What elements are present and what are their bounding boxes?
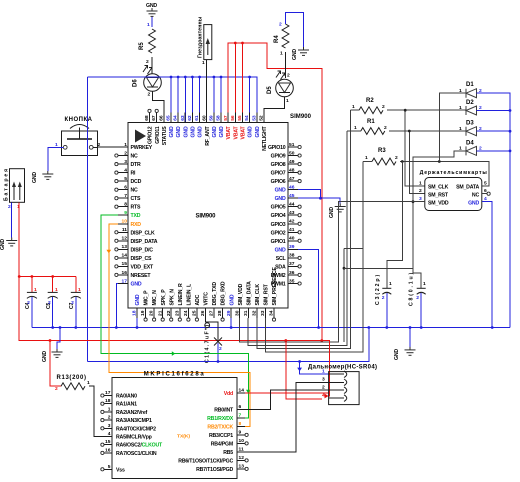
resistor R5 [139, 29, 155, 65]
svg-text:8: 8 [124, 202, 127, 208]
diode D1 [439, 82, 482, 162]
svg-text:RA1/AN1: RA1/AN1 [116, 402, 137, 408]
wire SIM_VDD net pin30 to holder [240, 202, 425, 343]
wire holder GND pin to rail [482, 202, 492, 328]
ground GND right of SIM [329, 204, 346, 219]
svg-text:41: 41 [289, 227, 295, 233]
svg-text:RA5/MCLR/Vpp: RA5/MCLR/Vpp [116, 435, 152, 441]
wire R2 net to D2 and SM_CLK [351, 109, 467, 186]
resistor R1 [354, 119, 387, 134]
svg-text:21: 21 [157, 310, 163, 316]
svg-text:4: 4 [484, 196, 487, 202]
svg-text:1: 1 [286, 98, 289, 104]
svg-text:NRESET: NRESET [131, 273, 152, 279]
svg-text:65: 65 [166, 115, 172, 121]
svg-text:RA0/AN0: RA0/AN0 [116, 394, 137, 400]
svg-text:5: 5 [124, 176, 127, 182]
svg-text:VBAT: VBAT [233, 125, 239, 139]
svg-text:RB2/TX/CK: RB2/TX/CK [207, 424, 233, 430]
svg-text:GND: GND [275, 196, 286, 202]
svg-text:DCD: DCD [131, 179, 142, 185]
diode D2 [459, 100, 482, 115]
svg-text:2: 2 [382, 295, 385, 301]
svg-text:4: 4 [124, 167, 127, 173]
wire D3 cathode blue [477, 130, 512, 133]
svg-text:GND: GND [198, 126, 204, 137]
svg-text:3: 3 [419, 196, 422, 202]
svg-text:GND: GND [292, 49, 298, 60]
svg-text:57: 57 [223, 115, 229, 121]
svg-text:10: 10 [239, 438, 245, 444]
svg-text:1: 1 [365, 155, 368, 161]
svg-text:Vss: Vss [116, 467, 125, 473]
wire R5 to D6 [151, 57, 153, 74]
svg-text:SIM900: SIM900 [290, 114, 312, 120]
button КНОПКА S1 [55, 117, 101, 156]
svg-text:SIM_CLK: SIM_CLK [255, 284, 261, 306]
svg-text:6: 6 [484, 188, 487, 194]
wire SIM pin39 GND down to rail [298, 249, 319, 327]
svg-text:2: 2 [148, 92, 151, 98]
svg-text:TX(K): TX(K) [177, 434, 190, 440]
svg-text:GPIO6: GPIO6 [271, 179, 286, 185]
svg-text:1: 1 [459, 88, 462, 94]
svg-text:GND: GND [212, 126, 218, 137]
svg-text:16: 16 [122, 270, 128, 276]
svg-text:SIM_PRESENCE: SIM_PRESENCE [272, 267, 278, 306]
wire SIM_CLK net pin32 to R2 [257, 110, 351, 348]
svg-text:STATUS: STATUS [162, 126, 168, 146]
svg-text:SM_RST: SM_RST [428, 193, 449, 199]
svg-text:D6: D6 [133, 79, 139, 87]
svg-text:14: 14 [122, 253, 128, 259]
wire R1 net to D3 and SM_RST [347, 130, 466, 194]
svg-text:RB1/RX/DX: RB1/RX/DX [207, 416, 234, 422]
svg-text:DBG_RXD: DBG_RXD [221, 281, 227, 305]
svg-text:DISP_CS: DISP_CS [131, 256, 153, 262]
svg-text:NC: NC [131, 188, 139, 194]
svg-text:1: 1 [280, 51, 283, 57]
svg-text:3: 3 [108, 423, 111, 429]
svg-text:SPK_N: SPK_N [169, 289, 175, 306]
svg-text:12: 12 [122, 236, 128, 242]
wire long GND vertical from top bus down left side [86, 77, 88, 362]
resistor R2 [352, 98, 385, 114]
svg-text:9: 9 [124, 210, 127, 216]
svg-text:2: 2 [322, 385, 325, 391]
capacitor C7 [69, 277, 81, 328]
svg-text:GPIO3: GPIO3 [271, 222, 286, 228]
svg-text:GND: GND [468, 201, 479, 207]
svg-text:44: 44 [289, 202, 295, 208]
diode D4 [459, 141, 482, 156]
svg-text:50: 50 [289, 150, 295, 156]
svg-text:2: 2 [382, 104, 385, 110]
svg-text:DTR: DTR [131, 162, 142, 168]
svg-text:NC: NC [131, 154, 139, 160]
svg-text:32: 32 [251, 310, 257, 316]
svg-text:39: 39 [289, 244, 295, 250]
wire SIM_RST net pin33 to R3 [265, 162, 363, 353]
svg-text:55: 55 [237, 115, 243, 121]
wire SIM_DATA net pin31 to R1 [248, 131, 347, 345]
svg-text:1: 1 [459, 105, 462, 111]
ultrasonic module Дальномер HC-SR04 [308, 364, 377, 404]
diode D3 [459, 121, 482, 136]
svg-text:7: 7 [124, 193, 127, 199]
svg-text:1: 1 [419, 181, 422, 187]
svg-text:26: 26 [200, 310, 206, 316]
svg-text:1: 1 [108, 406, 111, 412]
svg-text:2: 2 [48, 300, 51, 306]
svg-text:GND: GND [329, 207, 335, 218]
svg-text:R13(200): R13(200) [57, 375, 87, 381]
svg-text:C8(0.1u): C8(0.1u) [409, 273, 415, 306]
svg-text:63: 63 [180, 115, 186, 121]
holder NC pin circle [482, 192, 490, 195]
svg-text:58: 58 [216, 115, 222, 121]
svg-text:PWRKEY: PWRKEY [131, 145, 153, 151]
wire D2 cathode blue [477, 109, 512, 112]
svg-text:GPIO7: GPIO7 [271, 171, 286, 177]
svg-text:Гнездоантенны: Гнездоантенны [198, 16, 204, 58]
wire VBAT pins 57 56 55 [228, 42, 322, 341]
svg-text:2: 2 [395, 155, 398, 161]
wire C3 feed net [343, 162, 413, 343]
SIM900 right pins 51-35 [268, 142, 301, 288]
svg-text:Батарея: Батарея [4, 169, 10, 201]
svg-text:15: 15 [105, 439, 111, 445]
svg-text:2: 2 [416, 295, 419, 301]
svg-text:GND: GND [42, 351, 48, 362]
svg-text:GND: GND [248, 126, 254, 137]
svg-text:SCL: SCL [276, 256, 287, 262]
svg-text:RXD: RXD [131, 222, 142, 228]
svg-text:6: 6 [239, 404, 242, 410]
svg-text:GPIO1: GPIO1 [271, 239, 286, 245]
svg-text:D4: D4 [466, 141, 474, 147]
svg-text:27: 27 [209, 310, 215, 316]
wire battery minus to GND [11, 202, 13, 237]
svg-text:GND: GND [275, 188, 286, 194]
svg-text:8: 8 [239, 421, 242, 427]
svg-text:2: 2 [146, 59, 149, 65]
ground GND below caps rail [42, 326, 63, 362]
svg-text:C3(22p): C3(22p) [375, 275, 381, 305]
svg-text:RA4/T0CKI/CMP2: RA4/T0CKI/CMP2 [116, 426, 156, 432]
svg-text:RB7/T1OSI/PGD: RB7/T1OSI/PGD [196, 467, 233, 473]
svg-text:VBAT: VBAT [241, 125, 247, 139]
battery Батарея [4, 169, 25, 210]
MCU right pins [237, 387, 248, 470]
wire SIM900 pin29 GND to rail [230, 318, 232, 328]
wire battery plus red rail down and right [18, 202, 323, 342]
svg-text:67: 67 [151, 115, 157, 121]
svg-text:2: 2 [219, 346, 222, 352]
svg-text:MIC_N: MIC_N [152, 290, 158, 306]
svg-text:GPIO4: GPIO4 [271, 213, 286, 219]
svg-text:D3: D3 [466, 121, 474, 127]
svg-text:R4: R4 [274, 35, 280, 43]
svg-text:GPIO11: GPIO11 [155, 126, 161, 144]
svg-text:GND: GND [191, 126, 197, 137]
svg-text:R2: R2 [366, 98, 374, 104]
ground GND below main rail right [394, 328, 416, 361]
svg-text:SM_CLK: SM_CLK [428, 185, 449, 191]
svg-text:1: 1 [87, 380, 90, 386]
resistor R3 [365, 148, 398, 165]
wire RB5 to HC-SR04 [245, 382, 329, 452]
svg-text:1: 1 [423, 281, 426, 287]
svg-text:LINEIN_L: LINEIN_L [187, 283, 193, 305]
svg-text:2: 2 [108, 415, 111, 421]
svg-text:R1: R1 [367, 119, 375, 125]
svg-text:34: 34 [269, 310, 275, 316]
SIM900 U1 box [128, 123, 288, 309]
svg-text:GND: GND [169, 126, 175, 137]
capacitor C8(0.1u) [409, 273, 427, 328]
wire SIM900 pin18 GND to rail [136, 318, 138, 328]
svg-text:17: 17 [122, 278, 128, 284]
svg-text:GND: GND [0, 239, 6, 250]
wire HC-SR04 pin1 to GND rail [297, 362, 328, 399]
svg-text:43: 43 [289, 210, 295, 216]
svg-text:VRTC: VRTC [204, 292, 210, 306]
svg-text:18: 18 [105, 398, 111, 404]
svg-text:16: 16 [105, 447, 111, 453]
resistor R4 [274, 22, 289, 57]
svg-text:GPIO10: GPIO10 [268, 145, 286, 151]
svg-text:4: 4 [322, 393, 325, 399]
svg-text:GND: GND [255, 126, 261, 137]
svg-text:11: 11 [239, 446, 244, 452]
svg-text:62: 62 [187, 115, 193, 121]
svg-text:42: 42 [289, 219, 295, 225]
LED D6 [133, 66, 162, 92]
svg-text:5: 5 [484, 181, 487, 187]
svg-text:GND: GND [32, 172, 38, 183]
svg-text:2: 2 [124, 150, 127, 156]
svg-text:52: 52 [259, 115, 265, 121]
svg-text:36: 36 [289, 270, 295, 276]
svg-text:D5: D5 [267, 86, 273, 94]
resistor R13(200) [50, 341, 90, 393]
svg-text:2: 2 [419, 188, 422, 194]
svg-text:40: 40 [289, 236, 295, 242]
svg-text:Держательсимкарты: Держательсимкарты [420, 170, 488, 176]
svg-text:MKPIC16f628a: MKPIC16f628a [144, 372, 205, 378]
wire R13 to PIC RA5 MCLR [89, 386, 104, 436]
svg-text:Дальномер(HC-SR04): Дальномер(HC-SR04) [308, 364, 377, 370]
wire red branch to HC-SR04 Vcc [286, 341, 322, 399]
svg-text:18: 18 [132, 310, 138, 316]
wire D4 cathode blue [477, 150, 512, 153]
svg-text:R5: R5 [139, 42, 145, 50]
svg-text:1: 1 [389, 281, 392, 287]
SIM900 designator [290, 114, 312, 120]
svg-text:RI: RI [131, 171, 137, 177]
svg-text:54: 54 [244, 115, 250, 121]
wire R3 net to D1 junction and SM_DATA [363, 160, 489, 186]
svg-text:GND: GND [219, 126, 225, 137]
wire button pin2 to SIM900 PWRKEY pin1 [93, 146, 118, 148]
svg-text:1: 1 [124, 142, 127, 148]
svg-text:64: 64 [173, 115, 179, 121]
wire TXD green from SIM pin9 to PIC RB1 [101, 215, 251, 418]
wire D5 cathode to SIM900 pin52 NETLIGHT [264, 97, 289, 123]
svg-text:24: 24 [183, 310, 189, 316]
svg-text:GPIO9: GPIO9 [271, 154, 286, 160]
svg-text:GND: GND [183, 126, 189, 137]
svg-text:10: 10 [122, 219, 128, 225]
svg-text:1: 1 [459, 126, 462, 132]
svg-text:DISP_CLK: DISP_CLK [131, 230, 156, 236]
svg-text:11: 11 [122, 227, 127, 233]
svg-text:37: 37 [289, 261, 295, 267]
svg-text:SM_VDD: SM_VDD [428, 201, 449, 207]
svg-text:23: 23 [174, 310, 180, 316]
svg-text:48: 48 [289, 167, 295, 173]
svg-text:13: 13 [122, 244, 128, 250]
svg-text:GND: GND [394, 349, 400, 360]
svg-text:59: 59 [209, 115, 215, 121]
svg-text:GND: GND [229, 294, 235, 305]
svg-text:61: 61 [194, 115, 200, 121]
svg-text:25: 25 [192, 310, 198, 316]
capacitor C3(22p) [375, 275, 392, 328]
capacitor C5 [46, 277, 58, 328]
ground GND below battery [0, 238, 17, 251]
svg-text:RB0/INT: RB0/INT [214, 408, 234, 414]
svg-text:RB4/PGM: RB4/PGM [211, 441, 233, 447]
svg-text:RF_ANT: RF_ANT [205, 125, 211, 145]
wire SIM900 pin17 GND to rail [116, 284, 118, 328]
svg-text:35: 35 [289, 278, 295, 284]
svg-text:D2: D2 [466, 100, 474, 106]
SIM900 top pins 68-52 [144, 109, 268, 151]
svg-text:2: 2 [384, 125, 387, 131]
svg-text:1: 1 [202, 60, 205, 66]
svg-text:17: 17 [105, 390, 111, 396]
wire lower GND rail blue [87, 328, 369, 363]
svg-text:53: 53 [251, 115, 257, 121]
svg-text:49: 49 [289, 159, 295, 165]
svg-text:66: 66 [158, 115, 164, 121]
svg-text:SIM_DATA: SIM_DATA [246, 281, 252, 306]
svg-text:VBAT: VBAT [226, 125, 232, 139]
wire antenna to RF_ANT pin60 [206, 60, 208, 123]
ground GND right of R4 [292, 47, 309, 60]
svg-text:SIM_RST: SIM_RST [264, 283, 270, 305]
svg-text:2: 2 [287, 73, 290, 79]
svg-text:GPIO12: GPIO12 [148, 126, 154, 144]
svg-text:MIC_P: MIC_P [144, 290, 150, 306]
capacitor C1(4.7uF) on VRTC [205, 318, 223, 363]
svg-text:2: 2 [27, 300, 30, 306]
svg-text:DISP_DATA: DISP_DATA [131, 239, 158, 245]
SIM900 left pins 1-17 [115, 142, 158, 288]
svg-text:ADC: ADC [195, 294, 201, 305]
svg-text:RA6/OSC2/CLKOUT: RA6/OSC2/CLKOUT [116, 443, 163, 449]
svg-text:2: 2 [55, 386, 58, 392]
wire main GND rail blue [32, 326, 510, 329]
svg-text:SPK_P: SPK_P [161, 289, 167, 306]
svg-text:22: 22 [166, 310, 172, 316]
svg-text:1: 1 [352, 104, 355, 110]
svg-text:60: 60 [201, 115, 207, 121]
svg-text:RB5: RB5 [223, 450, 233, 456]
svg-text:GPIO8: GPIO8 [271, 162, 286, 168]
SIM card holder Держатель сим карты [419, 170, 487, 211]
svg-text:GPIO5: GPIO5 [271, 205, 286, 211]
wire D4 anode jog to SM_VDD net and C8 [412, 151, 466, 288]
svg-text:47: 47 [289, 176, 295, 182]
svg-text:31: 31 [243, 310, 249, 316]
svg-text:D1: D1 [466, 82, 474, 88]
svg-text:Vdd: Vdd [224, 391, 233, 397]
svg-text:56: 56 [230, 115, 236, 121]
wire D6 cathode to SIM900 pin66 STATUS [148, 92, 164, 123]
wire R4 bottom to D5 [285, 52, 287, 78]
svg-text:SM_DATA: SM_DATA [456, 185, 479, 191]
svg-text:45: 45 [289, 193, 295, 199]
wire GND top bus [87, 76, 256, 123]
svg-text:13: 13 [239, 463, 245, 469]
wire RXD orange from SIM pin10 to PIC RB2 [106, 224, 250, 427]
svg-text:VDD_EXT: VDD_EXT [131, 264, 155, 270]
svg-text:LINEIN_R: LINEIN_R [178, 283, 184, 305]
svg-text:GPIO2: GPIO2 [271, 230, 286, 236]
svg-text:RA3/AN3/CMP1: RA3/AN3/CMP1 [116, 418, 152, 424]
svg-text:RA7/OSC1/CLKIN: RA7/OSC1/CLKIN [116, 451, 157, 457]
MCU left pins [101, 390, 112, 471]
wire D1 cathode blue [477, 93, 511, 327]
svg-text:2: 2 [279, 22, 282, 28]
wire R5 top to GND [147, 17, 152, 28]
svg-text:C1(4.7uF*): C1(4.7uF*) [205, 325, 211, 363]
wire button pin1 to GND [48, 147, 64, 171]
LED D5 [267, 71, 293, 97]
capacitor C4 [25, 277, 37, 328]
svg-text:29: 29 [226, 310, 232, 316]
svg-text:5: 5 [108, 464, 111, 470]
svg-text:15: 15 [122, 261, 128, 267]
svg-text:SIM900: SIM900 [196, 214, 217, 220]
svg-text:GND: GND [176, 126, 182, 137]
svg-text:DISP_D/C: DISP_D/C [131, 247, 154, 253]
MCU MKPIC16f628a box [112, 372, 237, 479]
svg-text:7: 7 [239, 412, 242, 418]
svg-text:68: 68 [144, 115, 150, 121]
svg-text:38: 38 [289, 253, 295, 259]
ground GND below button [32, 171, 53, 183]
svg-text:1: 1 [147, 22, 150, 28]
wire SIM pins 46 45 GND to ground right [298, 190, 340, 204]
svg-text:RB3/CCP1: RB3/CCP1 [209, 433, 233, 439]
svg-text:GND: GND [275, 247, 286, 253]
wire GND pins 65-61 59 58 54 to bus [171, 77, 250, 123]
svg-text:20: 20 [149, 310, 155, 316]
svg-text:3: 3 [322, 377, 325, 383]
svg-text:RB6/T1OSO/T1CKI/PGC: RB6/T1OSO/T1CKI/PGC [178, 458, 233, 464]
svg-text:33: 33 [260, 310, 266, 316]
svg-text:DBG_TXD: DBG_TXD [212, 282, 218, 306]
svg-text:2: 2 [71, 300, 74, 306]
svg-text:30: 30 [234, 310, 240, 316]
svg-text:GND: GND [135, 294, 141, 305]
svg-text:RA2/AN2/Vref: RA2/AN2/Vref [116, 410, 148, 416]
svg-text:1: 1 [354, 125, 357, 131]
